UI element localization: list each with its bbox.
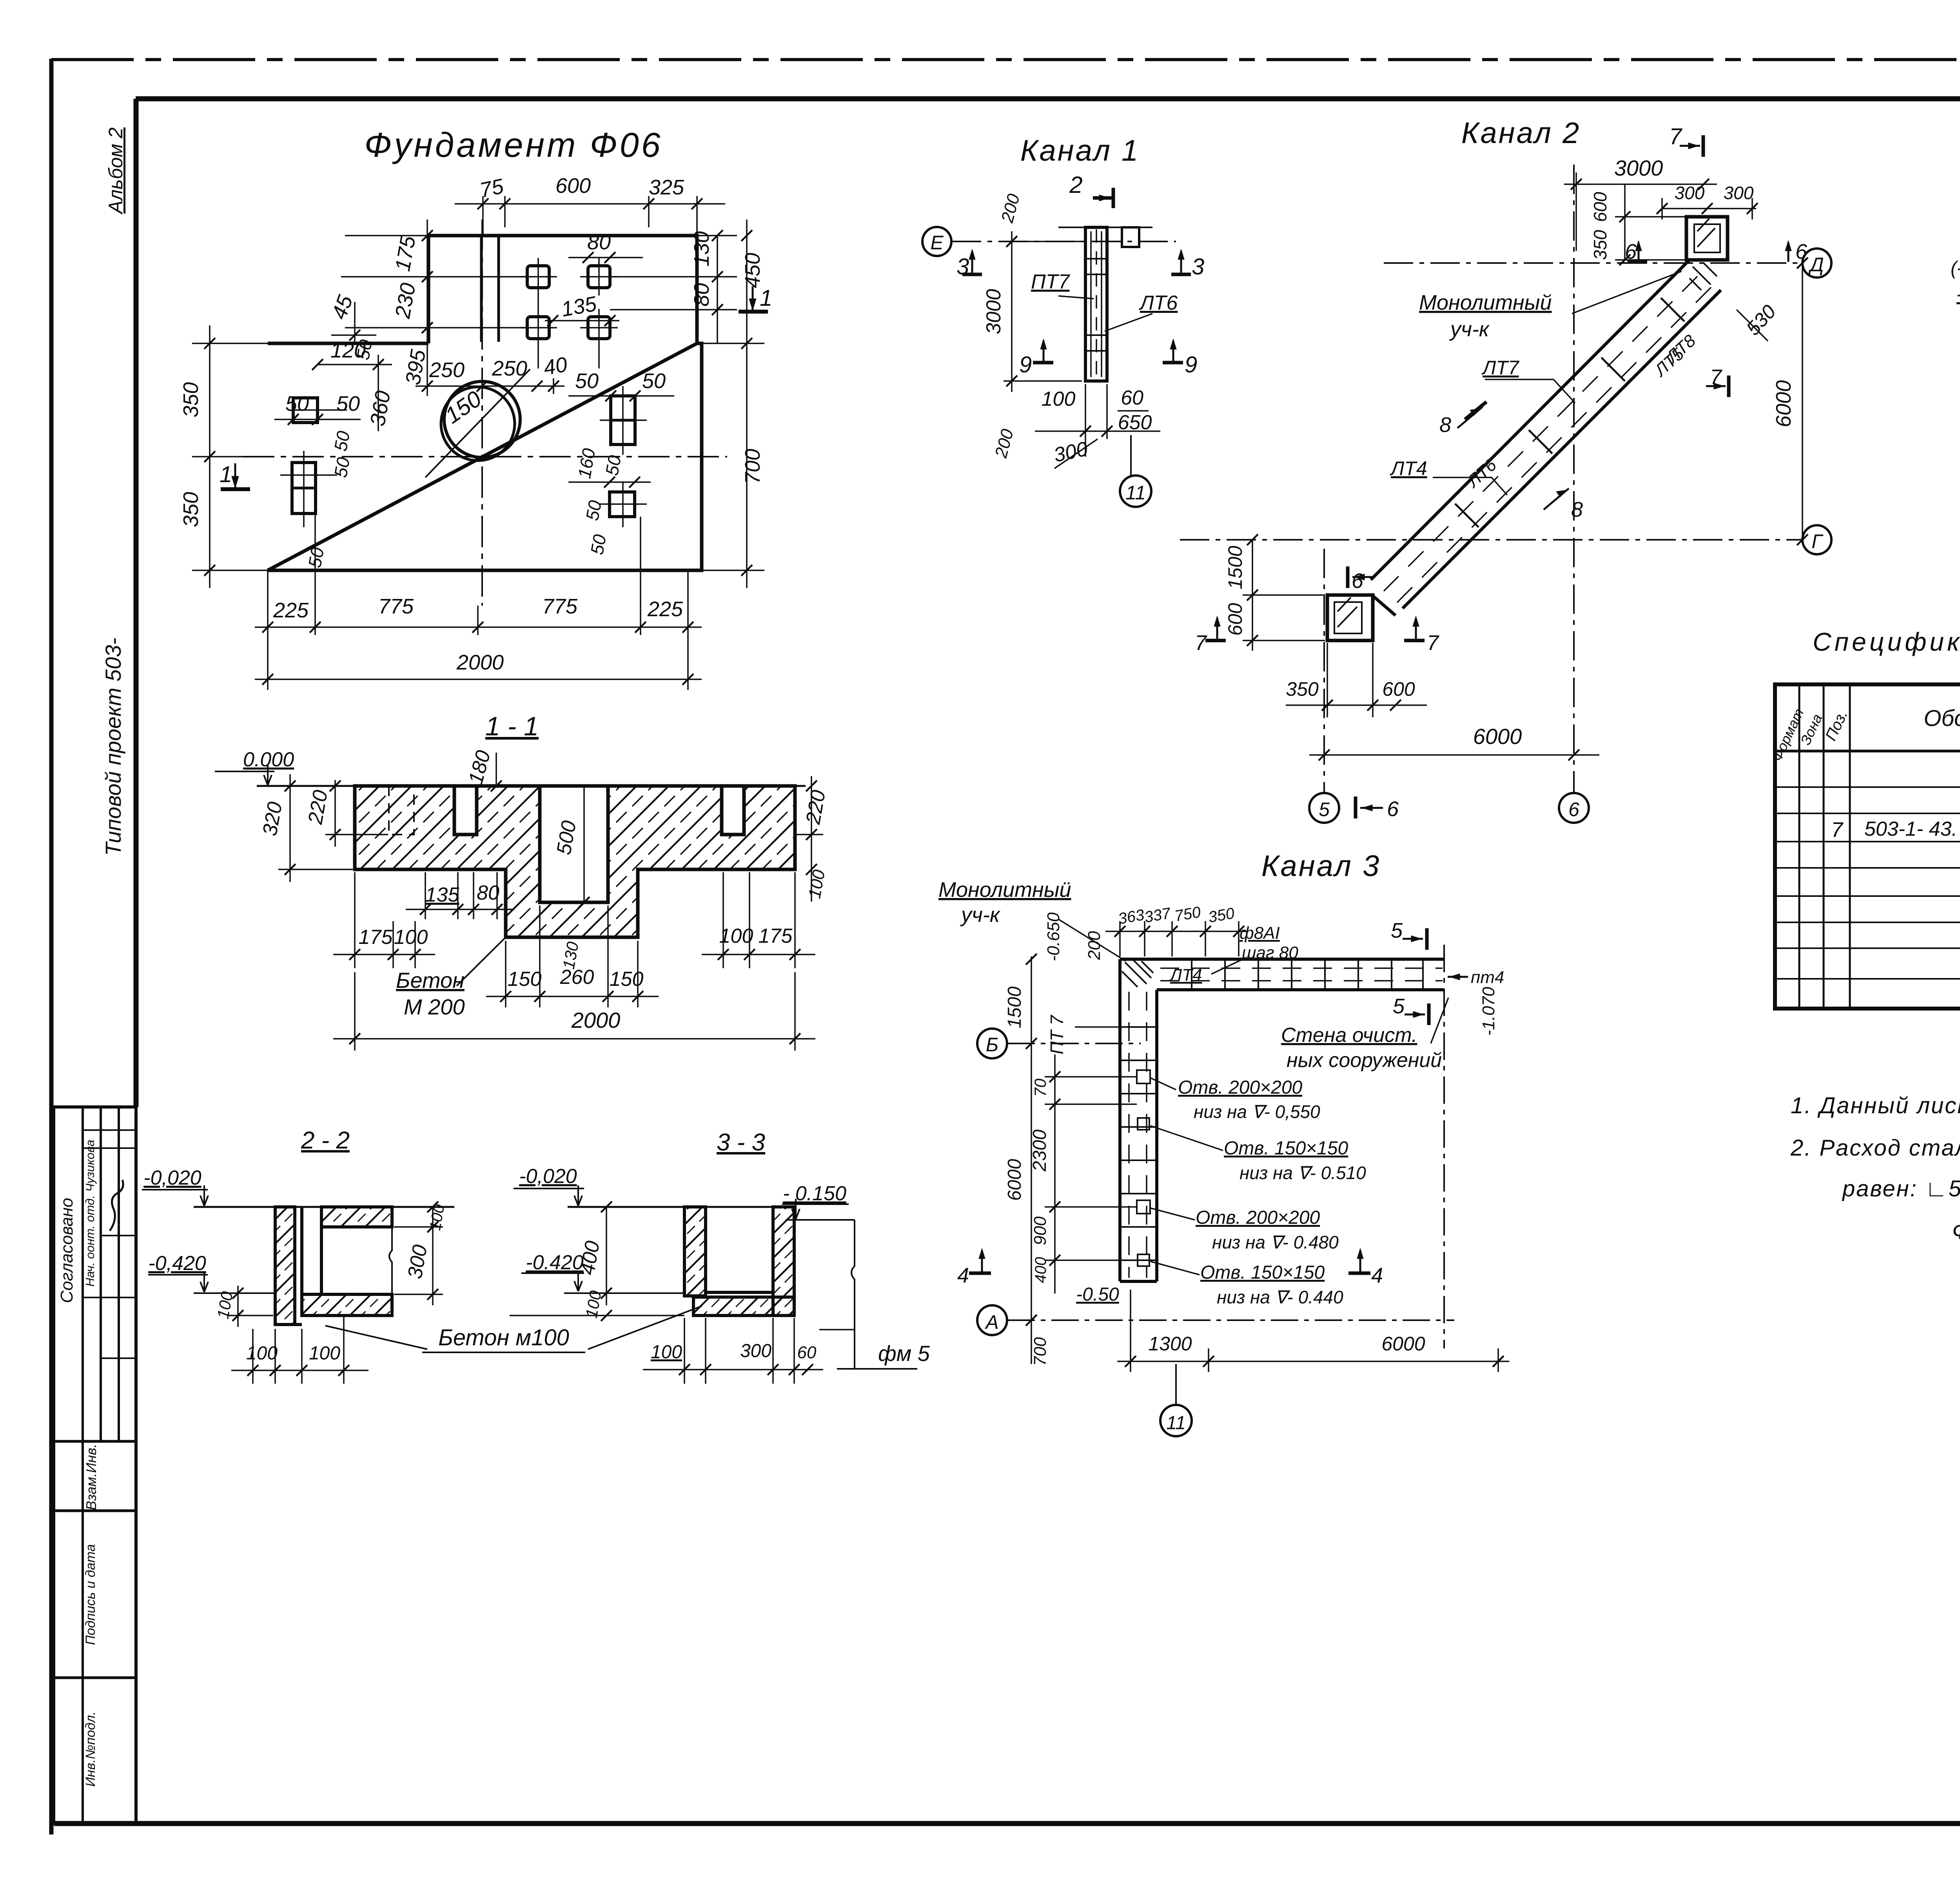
svg-text:100: 100 (309, 1343, 340, 1364)
leader Бетон М200 (457, 937, 506, 986)
section mark 4 right (1359, 1250, 1361, 1273)
svg-text:5: 5 (1393, 994, 1405, 1018)
section mark 5 lower (1405, 1014, 1425, 1016)
svg-text:6: 6 (1568, 798, 1579, 820)
svg-text:Бетон м100: Бетон м100 (438, 1325, 569, 1350)
svg-text:Взам.Инв.: Взам.Инв. (83, 1444, 99, 1510)
svg-text:-0,020: -0,020 (143, 1167, 201, 1189)
leader LT7 (1485, 379, 1575, 403)
leader 300 (1054, 439, 1098, 468)
svg-text:(-0.420): (-0.420) (1951, 258, 1960, 279)
svg-text:Ф8А ІІІ – 4, 41 кг: Ф8А ІІІ – 4, 41 кг (1952, 1218, 1960, 1244)
axis circle 11 (1120, 475, 1151, 507)
svg-text:уч-к: уч-к (960, 903, 1001, 927)
right edge with break (389, 1227, 392, 1294)
svg-text:40: 40 (542, 353, 569, 380)
horizontal arm outline (1120, 958, 1444, 961)
arrow ПТ4 right (1448, 976, 1468, 978)
dim 2000 (354, 972, 356, 1051)
diagonal channel edge 1 (1371, 261, 1689, 580)
right vertical dim 130/80 (717, 236, 718, 343)
svg-text:Г: Г (1811, 530, 1824, 552)
anchor square A2 (588, 266, 610, 288)
channel 1 walls (1085, 227, 1107, 381)
dim 220 left (334, 780, 336, 847)
svg-text:1: 1 (220, 462, 232, 487)
axis D horizontal (1384, 262, 1802, 264)
svg-text:100: 100 (394, 926, 428, 949)
dim 500 pit (583, 786, 585, 902)
svg-text:350: 350 (179, 492, 203, 527)
bottom dim row 225/775/775/225 (255, 626, 702, 628)
svg-text:100: 100 (651, 1342, 682, 1363)
circle diagonal leader (425, 369, 530, 477)
plan centerline horizontal (243, 456, 727, 457)
svg-text:Спецификация монолитных учас: Спецификация монолитных участков (1813, 627, 1960, 656)
svg-text:низ на ∇- 0,550: низ на ∇- 0,550 (1194, 1101, 1320, 1122)
svg-text:1500: 1500 (1004, 986, 1025, 1028)
svg-text:80: 80 (690, 283, 713, 307)
svg-text:600: 600 (1382, 678, 1415, 700)
dim 160/50 right lower (568, 481, 651, 483)
anchor square right lower (610, 492, 635, 517)
top edge line (1058, 227, 1152, 228)
svg-text:1500: 1500 (1224, 546, 1246, 589)
label -0.150 (782, 1203, 849, 1205)
svg-text:9: 9 (1019, 352, 1032, 377)
dim 180 top (495, 753, 497, 784)
dim 100 left (237, 1286, 239, 1327)
monolith hatch near box (1690, 263, 1717, 290)
bottom dims 100/100 (252, 1329, 254, 1384)
svg-text:250: 250 (429, 358, 465, 382)
svg-text:450: 450 (741, 253, 764, 288)
svg-text:Бетон: Бетон (396, 968, 465, 993)
svg-text:5: 5 (1319, 798, 1330, 820)
label -0.420 level (148, 1274, 208, 1276)
axis circle Г (1802, 525, 1831, 554)
svg-text:50: 50 (582, 499, 605, 522)
svg-text:60: 60 (1121, 386, 1143, 409)
svg-text:уч-к: уч-к (1449, 318, 1490, 341)
section mark 1 left (220, 462, 250, 489)
svg-text:ЛТ7: ЛТ7 (1481, 357, 1520, 379)
opening bottom line (706, 1291, 773, 1294)
svg-text:175: 175 (759, 925, 793, 947)
top right slab hatched (321, 1207, 392, 1227)
section mark 7 right (1415, 618, 1417, 641)
dim 6000 right (1802, 263, 1803, 540)
svg-text:100: 100 (1042, 388, 1076, 410)
section mark 6 left of box (1638, 242, 1640, 262)
svg-text:Инв.№подл.: Инв.№подл. (83, 1711, 98, 1787)
dim 120 at left square (318, 364, 392, 365)
svg-text:Подпись и дата: Подпись и дата (83, 1544, 98, 1645)
right vertical dim 450/700 (746, 220, 748, 588)
axis Б (1007, 1043, 1141, 1044)
svg-text:80: 80 (587, 230, 611, 254)
svg-text:700: 700 (741, 449, 764, 484)
middle-left vertical dim 175/230 (426, 220, 428, 396)
svg-text:-0.650: -0.650 (1044, 912, 1063, 961)
svg-text:50: 50 (642, 369, 666, 393)
wall bottom (275, 1323, 302, 1326)
inner border left (134, 99, 139, 1107)
dim 135 over A4 (545, 320, 619, 321)
svg-text:- 0.590: - 0.590 (1956, 283, 1960, 306)
stamp row lines (83, 1129, 136, 1131)
bottom dim row 2000 (255, 679, 702, 680)
plan slot double lines (480, 236, 483, 342)
section mark 8 upper (1457, 407, 1483, 428)
inner border bottom (54, 1821, 1960, 1826)
svg-text:-0.420: -0.420 (526, 1251, 584, 1274)
dim 50/50 right pair (568, 395, 674, 397)
section mark 2 top (1093, 188, 1113, 208)
arm joint lines (1192, 959, 1423, 990)
section mark 7 mid (1706, 385, 1726, 387)
dim 3000 top (1575, 172, 1577, 251)
bottom dims 100/300/60 (684, 1318, 685, 1384)
svg-text:650: 650 (1118, 411, 1152, 434)
section mark 9 right (1172, 341, 1174, 363)
svg-text:8: 8 (1571, 498, 1583, 521)
svg-text:ПТ7: ПТ7 (1031, 270, 1070, 293)
svg-text:80: 80 (477, 882, 499, 904)
svg-text:300: 300 (740, 1341, 771, 1361)
dim 320 (289, 774, 291, 882)
top line (568, 1206, 780, 1208)
svg-text:100: 100 (719, 925, 753, 947)
svg-text:Отв. 200×200: Отв. 200×200 (1178, 1077, 1303, 1098)
svg-text:Обозначение: Обозначение (1924, 706, 1960, 731)
svg-text:4: 4 (957, 1264, 969, 1287)
spec table header line (1775, 750, 1960, 753)
ground line (257, 785, 806, 787)
svg-text:135: 135 (425, 884, 460, 906)
leaders Бетон М100 (325, 1326, 427, 1349)
svg-text:7: 7 (1669, 124, 1683, 149)
svg-text:4: 4 (1371, 1264, 1383, 1287)
upper channel end box (1686, 217, 1728, 260)
stamp signature squiggle (110, 1180, 123, 1231)
section mark 4 left (981, 1250, 983, 1273)
svg-text:Отв. 150×150: Отв. 150×150 (1200, 1262, 1325, 1283)
label 0.000 (215, 771, 274, 772)
section 1-1 hatched body (355, 786, 795, 937)
dim 400 (606, 1207, 607, 1305)
svg-text:Канал 3: Канал 3 (1261, 849, 1381, 883)
svg-text:250: 250 (492, 357, 527, 380)
wall hatched (275, 1207, 295, 1325)
foundation plan lower plate outline (268, 343, 702, 570)
svg-text:1: 1 (760, 285, 772, 311)
axis circle Д (1802, 249, 1831, 278)
svg-text:6000: 6000 (1772, 380, 1795, 427)
svg-text:3: 3 (1192, 254, 1204, 279)
svg-text:50: 50 (586, 533, 610, 556)
svg-text:200: 200 (1085, 931, 1104, 960)
svg-text:2. Расход стали на обрамл: 2. Расход стали на обрамление отверстий (1790, 1135, 1960, 1161)
svg-text:50: 50 (601, 454, 625, 477)
dim 175/100 left bottom (354, 872, 356, 968)
wall of treatment facilities line (1443, 945, 1445, 1348)
svg-text:Фундамент Ф06: Фундамент Ф06 (364, 125, 662, 164)
svg-text:50: 50 (330, 455, 354, 479)
inner pit outline (540, 786, 608, 902)
svg-text:50: 50 (336, 392, 360, 416)
svg-text:6: 6 (1625, 240, 1637, 263)
svg-text:130: 130 (690, 231, 713, 267)
svg-text:225: 225 (647, 597, 683, 621)
section mark 1 right top (739, 285, 772, 312)
svg-text:низ на ∇- 0.510: низ на ∇- 0.510 (1240, 1163, 1366, 1183)
svg-text:70: 70 (1031, 1078, 1049, 1097)
anchor square right upper pair (611, 396, 635, 445)
svg-text:низ на ∇- 0.480: низ на ∇- 0.480 (1212, 1232, 1339, 1252)
svg-text:ных сооружений: ных сооружений (1287, 1049, 1442, 1072)
vertical arm joints (1120, 1027, 1157, 1260)
diagonal channel inner dashes (1384, 276, 1697, 591)
arm inner dashed lines (1160, 967, 1443, 969)
section mark 6 near circle5 (1360, 807, 1383, 809)
wall inner lines (300, 1207, 303, 1316)
left dim column 1500/6000 (1031, 956, 1032, 1364)
leaders to hole labels (1151, 1078, 1176, 1090)
dim 250 250 40 (416, 385, 564, 387)
spec table outer frame (1775, 684, 1960, 1009)
svg-text:3 - 3: 3 - 3 (717, 1129, 765, 1156)
bottom slab hatched (693, 1297, 794, 1316)
bottom dim 1300/6000 (1117, 1361, 1509, 1362)
section mark 8 lower (1544, 488, 1569, 510)
svg-text:ПТ 7: ПТ 7 (1047, 1015, 1067, 1054)
dim 150/260/150 (505, 941, 506, 1007)
svg-text:50: 50 (304, 546, 328, 569)
axis circle Е (922, 227, 951, 256)
svg-text:5: 5 (1391, 919, 1403, 942)
axis circle 6 (1559, 793, 1589, 823)
svg-text:Канал 2: Канал 2 (1461, 116, 1581, 150)
channel 1 centerline (1096, 229, 1097, 379)
svg-text:775: 775 (542, 595, 578, 618)
notes text (1790, 1093, 1960, 1244)
right ФМ5 line with break (851, 1220, 855, 1369)
svg-text:50: 50 (330, 429, 354, 453)
svg-text:Д: Д (1808, 254, 1824, 276)
vertical arm outline (1118, 959, 1122, 1281)
svg-text:А: А (984, 1311, 998, 1333)
channel joint ticks (1455, 298, 1684, 527)
stamp vertical divider 3 (118, 1107, 120, 1441)
dim 100/175 right bottom (722, 872, 724, 968)
top dim line (1105, 931, 1247, 932)
section mark 9 left (1043, 341, 1045, 363)
dim 220/100 right (811, 776, 812, 902)
svg-text:2000: 2000 (571, 1008, 621, 1032)
svg-text:325: 325 (649, 176, 684, 199)
dim 600/350 left of box (1624, 184, 1626, 260)
svg-text:700: 700 (1031, 1337, 1050, 1366)
svg-text:350: 350 (1590, 230, 1610, 260)
leader ПТ7 (1075, 1026, 1119, 1028)
section mark 7 top (1680, 145, 1700, 147)
svg-text:350: 350 (1286, 678, 1319, 700)
anchor square A4 (588, 317, 610, 339)
leader PT7 (1058, 296, 1094, 299)
leader Стена (1431, 998, 1448, 1043)
left dim column 70/2300/900/400 (1054, 1054, 1056, 1294)
axis E horizontal (952, 241, 1176, 242)
leader: monolith label (1572, 271, 1682, 314)
svg-text:100: 100 (246, 1343, 278, 1364)
svg-text:3000: 3000 (982, 289, 1005, 334)
svg-text:Канал 1: Канал 1 (1020, 134, 1140, 167)
bottom dim structure (1085, 384, 1086, 457)
svg-text:6: 6 (1352, 569, 1364, 593)
dim 350/600 bottom (1286, 704, 1427, 706)
section mark 6 right of box (1788, 242, 1789, 262)
svg-text:150: 150 (508, 968, 542, 991)
monolith patch hatch (1122, 960, 1153, 987)
svg-text:600: 600 (555, 174, 591, 198)
bottom slab hatched (302, 1294, 392, 1316)
svg-text:300: 300 (1724, 183, 1754, 203)
svg-text:ЛТ4: ЛТ4 (1169, 965, 1202, 985)
label -0.020 (514, 1188, 584, 1189)
left stamp box (54, 1107, 136, 1824)
svg-text:-0.50: -0.50 (1076, 1284, 1119, 1305)
leader LT6 (1105, 314, 1152, 331)
outer frame top dash-dot line (51, 58, 1960, 61)
axis Г horizontal (1180, 539, 1802, 541)
anchor square A3 (527, 317, 549, 339)
svg-text:350: 350 (179, 382, 203, 417)
svg-text:Нач. оонт. отд. Чузикова: Нач. оонт. отд. Чузикова (83, 1140, 97, 1287)
svg-text:1300: 1300 (1148, 1333, 1192, 1355)
axis circle 11 (1175, 1364, 1177, 1404)
svg-text:Монолитныü: Монолитныü (938, 878, 1071, 902)
svg-text:2 - 2: 2 - 2 (301, 1127, 350, 1154)
dim 530 ticks (1737, 310, 1768, 341)
box to channel chamfer (1373, 596, 1396, 615)
dim 6000 bottom (1309, 754, 1599, 756)
svg-text:2: 2 (1069, 172, 1082, 198)
section mark 6 above lower box (1352, 576, 1375, 578)
svg-text:60: 60 (797, 1343, 817, 1362)
leader ф8АI шаг 80 (1211, 958, 1245, 974)
stamp vertical divider 1 (82, 1107, 84, 1824)
section mark 3 left (971, 251, 973, 274)
anchor square A1 (527, 266, 549, 288)
svg-text:Монолитный: Монолитный (1419, 291, 1552, 314)
svg-text:пт4: пт4 (1471, 968, 1504, 987)
svg-text:0.000: 0.000 (243, 748, 294, 771)
svg-text:Стена очист.: Стена очист. (1281, 1024, 1417, 1047)
svg-text:50: 50 (285, 392, 309, 416)
outer frame left edge (49, 59, 54, 1834)
label -0.020 (142, 1189, 208, 1190)
dim 45 step (354, 302, 356, 343)
svg-text:равен: ∟50×5 – 55, 86 кг: равен: ∟50×5 – 55, 86 кг (1842, 1176, 1960, 1201)
svg-text:-0,020: -0,020 (519, 1165, 577, 1188)
svg-text:ф8АІ: ф8АІ (1240, 924, 1280, 943)
svg-text:50: 50 (352, 338, 376, 361)
label -0.420 level (521, 1272, 584, 1274)
dim 100 left (510, 1315, 684, 1316)
stamp vertical divider 2 (100, 1107, 102, 1441)
svg-text:50: 50 (575, 369, 599, 393)
axis line to circle 11 (1130, 435, 1132, 475)
left wall hatched (684, 1207, 706, 1296)
svg-text:-0,420: -0,420 (148, 1252, 206, 1275)
plan dim labels (179, 174, 764, 674)
svg-text:600: 600 (1224, 603, 1246, 636)
anchor square left upper (293, 398, 318, 423)
svg-text:Альбом 2: Альбом 2 (105, 127, 127, 215)
dim 1500/600 left (1252, 540, 1253, 651)
diagonal channel edge 2 (1403, 290, 1721, 608)
svg-text:- 0.150: - 0.150 (783, 1182, 846, 1205)
dim 50/50 left (274, 419, 361, 420)
section mark 3 right (1180, 251, 1182, 274)
svg-text:2300: 2300 (1029, 1129, 1050, 1172)
left vertical dim 350/350 (209, 325, 211, 588)
svg-text:низ на ∇- 0.440: низ на ∇- 0.440 (1217, 1287, 1343, 1307)
svg-text:775: 775 (378, 595, 414, 618)
svg-text:9: 9 (1185, 352, 1197, 377)
top line (194, 1206, 454, 1208)
svg-text:6000: 6000 (1473, 724, 1522, 749)
dim 135/80 (425, 872, 426, 919)
svg-text:3000: 3000 (1614, 156, 1663, 180)
svg-text:8: 8 (1439, 413, 1451, 437)
label Монолитный уч-к leader (1058, 919, 1126, 961)
svg-text:-1.070: -1.070 (1479, 987, 1498, 1036)
svg-text:Отв. 200×200: Отв. 200×200 (1196, 1207, 1320, 1228)
section mark 5 top (1403, 938, 1423, 940)
svg-text:1 - 1: 1 - 1 (485, 711, 539, 741)
dim 3000 left (1011, 231, 1013, 392)
top notches (454, 786, 477, 835)
svg-text:2000: 2000 (456, 651, 504, 674)
svg-text:Отв. 150×150: Отв. 150×150 (1224, 1138, 1348, 1159)
svg-text:Согласовано: Согласовано (57, 1198, 76, 1303)
svg-text:Е: Е (930, 232, 944, 254)
svg-text:6: 6 (1795, 240, 1808, 263)
lower channel end box (1327, 595, 1373, 641)
svg-text:7: 7 (1831, 818, 1844, 842)
svg-text:7: 7 (1427, 631, 1439, 655)
section mark 7 left (1216, 618, 1218, 641)
anchor square left lower pair (292, 463, 316, 514)
inner border top (136, 96, 1960, 102)
channel 1 joint lines (1085, 258, 1107, 259)
svg-text:600: 600 (1590, 192, 1610, 222)
svg-text:225: 225 (273, 599, 309, 622)
svg-text:фм 5: фм 5 (878, 1341, 930, 1366)
axis 6 vertical (1573, 165, 1575, 793)
svg-text:Б: Б (986, 1034, 999, 1056)
dim 300/100 right (432, 1207, 434, 1305)
svg-text:6000: 6000 (1381, 1333, 1425, 1355)
vertical arm inner dashed (1128, 992, 1130, 1278)
plan circle (opening d150) (444, 381, 520, 457)
top dim line 75/600/325 (455, 203, 725, 205)
svg-text:900: 900 (1031, 1216, 1050, 1245)
svg-text:3: 3 (956, 254, 969, 279)
axis circle 5 (1309, 793, 1339, 823)
